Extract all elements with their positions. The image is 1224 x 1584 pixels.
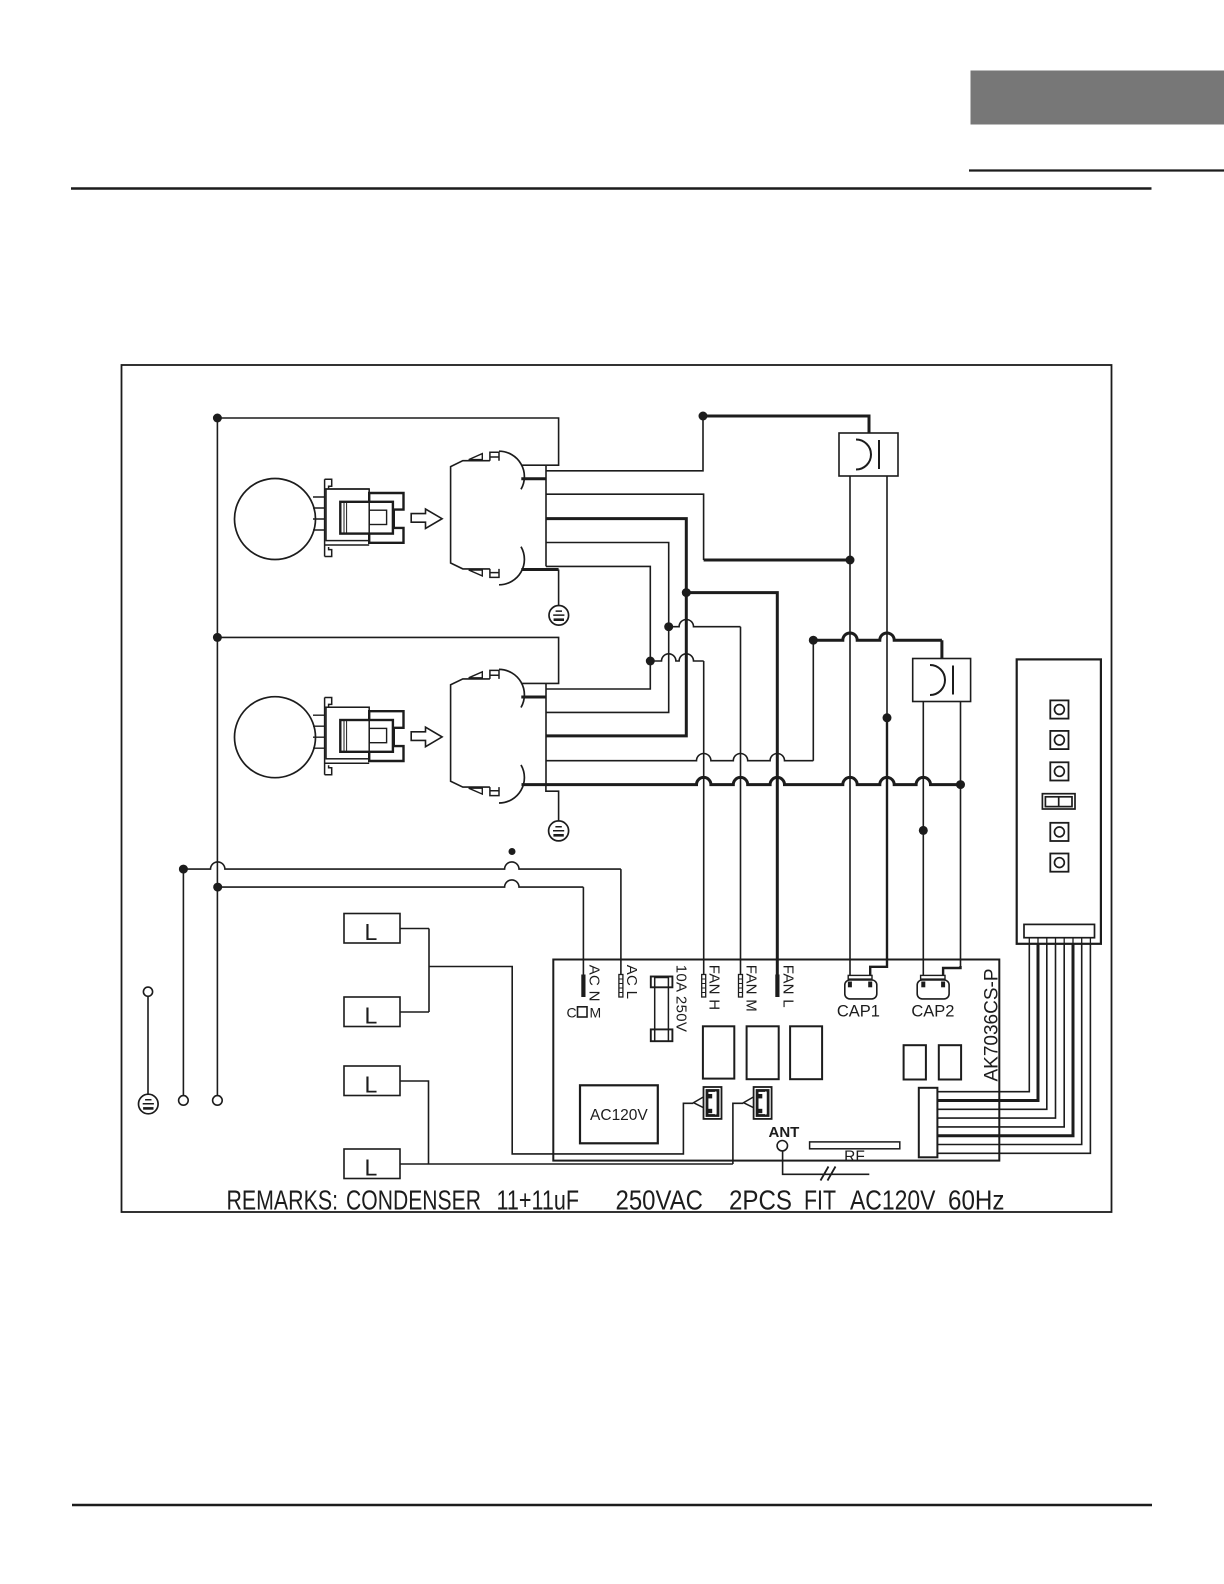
pin AC N xyxy=(581,975,585,998)
svg-text:FAN L: FAN L xyxy=(779,965,796,1008)
svg-text:FAN M: FAN M xyxy=(742,965,759,1012)
wire J1 pin1 to CAP1 node xyxy=(546,416,703,471)
wire L2 lead xyxy=(400,1011,429,1013)
capacitor CAP2 curved plate xyxy=(930,665,945,695)
connector CN2 inner xyxy=(757,1091,768,1116)
connector housing J2 top latch triangle xyxy=(469,672,483,678)
plug P2 mount plate xyxy=(325,698,370,775)
node rail junction top xyxy=(213,414,222,423)
wire CAP2 left leg xyxy=(922,702,924,976)
wire CAP1 right leg xyxy=(886,476,888,718)
node rail N branch xyxy=(213,883,222,892)
arrow direction 2 xyxy=(411,727,442,747)
wire harness 4 xyxy=(937,944,1055,1118)
plug P1 shroud xyxy=(369,493,403,543)
node CAP1 right leg splice xyxy=(883,713,892,722)
terminal circle rail L xyxy=(179,1096,189,1106)
capacitor CAP2 straight plate xyxy=(952,666,954,695)
connector housing J1 top tab xyxy=(490,452,499,461)
connector housing J1 top arc xyxy=(499,451,524,489)
relay K1 xyxy=(703,1026,734,1078)
fuse F1 body xyxy=(655,978,669,1042)
ground J1 symbol xyxy=(549,606,569,626)
page header gray bar xyxy=(971,71,1224,125)
connector housing J2 bottom latch triangle xyxy=(469,788,483,794)
plug P1 shroud notch xyxy=(393,510,395,528)
svg-text:CAP2: CAP2 xyxy=(911,1003,954,1021)
plug P1 inner lines xyxy=(344,503,347,534)
svg-text:ANT: ANT xyxy=(769,1124,800,1141)
wire L4 to CN2 xyxy=(400,1103,743,1164)
svg-text:L: L xyxy=(365,1072,378,1098)
wire harness 6 xyxy=(937,944,1073,1136)
label COM square xyxy=(578,1007,588,1017)
wire FAN H feed xyxy=(650,654,703,975)
wire J2 pin1 rise xyxy=(546,661,650,689)
connector housing J1 bottom tab xyxy=(490,569,499,578)
wire J1 pin2 drop xyxy=(546,494,704,560)
connector CAP1 shell xyxy=(845,980,877,999)
connector CN1 pins xyxy=(708,1094,712,1098)
connector housing J1 top pin xyxy=(521,477,546,480)
wire L1-L2 bus xyxy=(428,929,430,1013)
wire M1 top feed xyxy=(217,418,558,465)
svg-text:AC L: AC L xyxy=(623,965,640,1000)
motor M2 leads xyxy=(313,715,325,748)
component U2 xyxy=(939,1045,961,1079)
node CAP2 top junction xyxy=(809,636,818,645)
connector CN2 shell xyxy=(754,1087,772,1119)
diagram border frame xyxy=(122,365,1112,1212)
wire left rail L vertical xyxy=(182,869,184,1096)
wire harness 5 xyxy=(937,944,1064,1127)
svg-text:M: M xyxy=(590,1005,602,1021)
capacitor CAP1 curved plate xyxy=(856,440,871,470)
node FAN H junction xyxy=(646,657,655,666)
motor M1 leads xyxy=(313,497,325,530)
node FAN M junction xyxy=(664,622,673,631)
wire J2 pin2 rise xyxy=(546,627,669,713)
node FAN L tap xyxy=(682,588,691,597)
svg-text:AC120V: AC120V xyxy=(850,1185,936,1216)
wire L3 lead xyxy=(400,1081,429,1164)
svg-text:AK7036CS-P: AK7036CS-P xyxy=(982,968,1003,1081)
wire AC L feed xyxy=(183,862,621,975)
control board outline xyxy=(553,960,999,1161)
wire antenna xyxy=(783,1151,870,1174)
wire AC N feed xyxy=(218,880,584,975)
ground J2 symbol xyxy=(549,821,569,841)
wire left rail N vertical xyxy=(216,418,218,1096)
connector J1 bottom pin xyxy=(521,568,558,571)
svg-text:CONDENSER: CONDENSER xyxy=(346,1185,481,1216)
pin FAN L xyxy=(775,975,779,998)
fuse F1 bottom cap xyxy=(651,1029,673,1041)
svg-text:250VAC: 250VAC xyxy=(616,1185,704,1216)
connector CAP2 pins xyxy=(921,982,925,988)
svg-text:11+11uF: 11+11uF xyxy=(497,1185,580,1216)
connector CN1 slot xyxy=(715,1092,717,1115)
wire harness 1 xyxy=(937,944,1029,1092)
wire harness 7 xyxy=(937,944,1081,1145)
wire CAP2 right leg lower xyxy=(960,785,962,967)
connector housing J2 outline xyxy=(451,679,490,787)
connector CAP2 shell xyxy=(917,980,949,999)
svg-text:RF: RF xyxy=(844,1149,865,1166)
connector housing J1 top latch triangle xyxy=(469,454,483,460)
node rail L start xyxy=(179,865,188,874)
fuse F1 top cap xyxy=(651,977,673,988)
wire J1 ground drop xyxy=(558,570,560,606)
plug P2 inner lines xyxy=(344,721,347,752)
wire PE vertical xyxy=(147,996,149,1094)
relay K3 xyxy=(790,1026,822,1079)
header rule full xyxy=(71,187,1152,190)
arrow direction 1 xyxy=(411,509,442,529)
wire common J1-J2 link xyxy=(546,519,686,736)
wire CAP2 top feed xyxy=(813,633,942,659)
plug P1 body xyxy=(326,489,369,541)
remote slide switch xyxy=(1042,794,1075,809)
wire J2 bottom pin common xyxy=(522,777,961,784)
wire CAP1 bottom link xyxy=(704,559,850,562)
node CAP2 left leg splice xyxy=(919,826,928,835)
remote connector strip xyxy=(1024,924,1095,937)
node J2 common to CAP2 xyxy=(956,780,965,789)
svg-text:FAN H: FAN H xyxy=(706,965,723,1011)
svg-text:CAP1: CAP1 xyxy=(837,1003,880,1021)
wire L1 lead xyxy=(400,928,429,930)
wire J2 ground drop xyxy=(546,785,559,821)
connector housing J2 bottom tab xyxy=(490,787,499,796)
connector housing J1 bottom arc xyxy=(499,547,524,585)
wire lamps to CN1 xyxy=(429,967,693,1154)
connector CAP1 bar xyxy=(848,975,872,979)
svg-text:L: L xyxy=(365,1003,378,1029)
lamp L1 box xyxy=(344,914,400,944)
remote unit box xyxy=(1017,659,1101,943)
svg-text:60Hz: 60Hz xyxy=(948,1185,1005,1216)
node rail junction mid xyxy=(213,633,222,642)
connector CN3 shell xyxy=(919,1088,938,1158)
svg-text:10A 250V: 10A 250V xyxy=(673,965,690,1032)
svg-text:2PCS: 2PCS xyxy=(729,1185,792,1216)
node CAP1 top junction xyxy=(699,412,708,421)
transformer AC120V box xyxy=(580,1085,658,1143)
relay K2 xyxy=(747,1026,779,1079)
antenna terminal xyxy=(777,1141,787,1151)
wire FAN L feed xyxy=(686,593,777,975)
plug P1 key box xyxy=(369,510,386,524)
svg-text:L: L xyxy=(365,919,378,945)
connector housing J2 bottom arc xyxy=(499,765,524,803)
motor M2 body xyxy=(235,697,316,778)
svg-text:REMARKS:: REMARKS: xyxy=(227,1185,339,1216)
wire harness 3 xyxy=(937,944,1046,1110)
remote button B4 xyxy=(1050,823,1068,841)
plug P2 inner housing xyxy=(340,720,393,752)
connector CN1 shell xyxy=(704,1087,722,1119)
svg-text:C: C xyxy=(567,1005,577,1021)
node floating splice xyxy=(509,848,516,855)
pin FAN M xyxy=(739,975,743,998)
connector housing J2 top pin xyxy=(521,696,546,699)
footer rule xyxy=(72,1504,1152,1506)
wire FAN M feed xyxy=(669,620,741,975)
remote connector stubs xyxy=(1029,938,1090,944)
lamp L3 box xyxy=(344,1066,400,1096)
ground PE symbol xyxy=(139,1094,159,1114)
connector housing J2 right edge xyxy=(545,683,547,784)
arrow CN2 xyxy=(744,1097,754,1108)
header rule right xyxy=(969,169,1224,171)
connector housing J1 bottom latch triangle xyxy=(469,570,483,576)
wire CAP1 top feed xyxy=(703,416,869,434)
capacitor CAP1 box xyxy=(839,433,898,476)
svg-text:AC N: AC N xyxy=(585,965,602,1002)
terminal circle rail N xyxy=(213,1096,223,1106)
capacitor CAP2 box xyxy=(913,659,971,702)
connector CN2 pins xyxy=(758,1094,762,1098)
component U1 xyxy=(904,1045,926,1079)
connector CAP1 pins xyxy=(848,982,852,988)
wire CAP1 right leg lower xyxy=(870,718,887,976)
svg-text:FIT: FIT xyxy=(804,1185,836,1216)
wire J1 pin4 drop xyxy=(546,543,669,627)
terminal circle PE xyxy=(143,987,152,996)
connector housing J1 right edge xyxy=(545,465,547,566)
connector CN2 slot xyxy=(765,1092,767,1115)
pin AC L xyxy=(619,975,623,998)
wire harness 8 xyxy=(937,944,1090,1154)
connector housing J2 top arc xyxy=(499,669,524,707)
antenna break marks xyxy=(821,1167,836,1181)
remote button B1 xyxy=(1050,700,1068,718)
svg-text:AC120V: AC120V xyxy=(590,1107,648,1124)
wire J1 pin5 drop xyxy=(546,566,650,661)
plug P1 inner housing xyxy=(340,502,393,534)
connector CN1 inner xyxy=(707,1091,718,1116)
remote button B3 xyxy=(1050,762,1068,780)
lamp L4 box xyxy=(344,1149,400,1179)
wire J2 pin4 to CAP2 xyxy=(546,640,813,761)
component RF bar xyxy=(810,1142,900,1149)
wire harness 2 xyxy=(937,944,1038,1101)
plug P2 body xyxy=(326,707,369,759)
plug P2 shroud xyxy=(369,711,403,761)
capacitor CAP1 straight plate xyxy=(878,440,880,469)
connector housing J2 top tab xyxy=(490,670,499,679)
svg-text:L: L xyxy=(365,1155,378,1181)
wire CAP1 left leg xyxy=(849,476,851,975)
lamp L2 box xyxy=(344,997,400,1027)
wire M2 top feed xyxy=(217,637,558,683)
remote button B2 xyxy=(1050,731,1068,749)
motor M1 body xyxy=(235,479,316,560)
pin FAN H xyxy=(702,975,706,998)
connector housing J1 outline xyxy=(451,461,490,569)
node CAP1 left leg xyxy=(846,556,855,565)
connector CAP2 bar xyxy=(921,975,945,979)
wire CAP2 right leg upper xyxy=(960,702,962,785)
plug P2 shroud notch xyxy=(393,728,395,746)
arrow CN1 xyxy=(694,1097,704,1108)
remote button B5 xyxy=(1050,854,1068,872)
plug P1 mount plate xyxy=(325,479,370,556)
plug P2 key box xyxy=(369,728,386,742)
